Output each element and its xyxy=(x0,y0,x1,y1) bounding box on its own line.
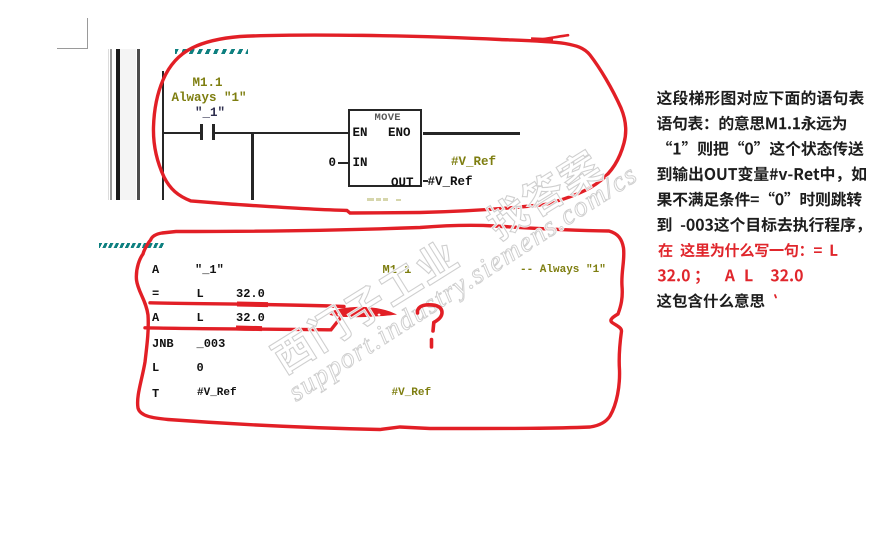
question mark xyxy=(417,305,442,331)
pin IN xyxy=(353,157,368,170)
STL token = xyxy=(152,288,159,300)
STL token &quot;_1&quot; xyxy=(195,264,224,276)
underline below 'A L 32.0' with kink up to arrow xyxy=(145,317,342,330)
power rail (left bus) xyxy=(162,71,164,200)
STL token A xyxy=(152,312,159,324)
network comment dashes (STL) xyxy=(99,243,164,248)
scribbled arrow blob xyxy=(329,307,397,317)
wire branch junction xyxy=(251,133,254,200)
label MOVE xyxy=(375,113,401,124)
STL token 32.0 xyxy=(236,312,265,324)
STL token A xyxy=(152,264,159,276)
STL token L xyxy=(197,288,204,300)
label M1.1 xyxy=(193,77,223,90)
pin EN xyxy=(353,127,368,140)
STL token L xyxy=(152,362,159,374)
network comment dashes (ladder) xyxy=(175,49,248,54)
pin OUT xyxy=(391,177,414,190)
STL token M1.1 xyxy=(383,264,412,276)
underline below '= L 32.0' xyxy=(150,303,344,307)
STL token #V_Ref xyxy=(392,388,432,399)
wire contact-to-MOVE xyxy=(215,132,348,135)
red oval around STL block xyxy=(136,225,623,429)
pin OUT operand #V_Ref xyxy=(423,180,429,182)
pen hook at oval top xyxy=(540,35,568,40)
wire ENO output xyxy=(423,132,521,135)
MOVE block U1 xyxy=(348,109,422,188)
STL token -- Always &quot;1&quot; xyxy=(520,265,606,276)
label Always "1" xyxy=(172,92,247,105)
STL token T xyxy=(152,388,159,400)
small red tick after last paragraph line xyxy=(775,295,776,298)
cropped next-network text remnants xyxy=(367,198,374,201)
label #V_Ref symbol xyxy=(451,156,496,169)
page corner mark xyxy=(57,48,88,49)
wire rail-to-contact xyxy=(162,132,201,135)
value 0 at pin IN xyxy=(329,157,337,170)
STL token L xyxy=(197,312,204,324)
red oval around ladder network xyxy=(153,35,625,213)
STL token 32.0 xyxy=(236,288,265,300)
STL token 0 xyxy=(197,362,204,374)
editor left margin bars xyxy=(108,49,110,200)
pin ENO xyxy=(388,127,411,140)
STL token JNB xyxy=(152,338,174,350)
STL token #V_Ref xyxy=(197,388,237,399)
STL token _003 xyxy=(197,338,226,350)
contact M1.1 (normally-open) xyxy=(200,124,203,140)
label "_1" operand xyxy=(195,107,225,120)
